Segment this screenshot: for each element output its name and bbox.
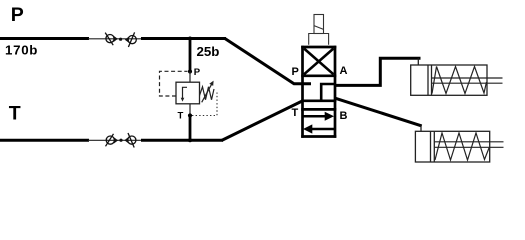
wire thin into valve box — [189, 72, 191, 83]
valve arrow left — [303, 124, 334, 133]
reducing valve internal arrow — [181, 87, 187, 101]
pressure reducing valve body — [176, 82, 200, 104]
quick coupling left half on T line — [106, 134, 119, 147]
wire B diagonal to bottom cylinder — [336, 98, 422, 126]
valve arrow right — [304, 112, 335, 121]
wire P diagonal to valve — [225, 38, 312, 83]
reducing valve adjustment arrow — [202, 81, 214, 103]
svg-text:P: P — [292, 66, 299, 78]
drain line dotted — [192, 93, 217, 116]
svg-text:P: P — [194, 67, 201, 78]
node dot between T couplings — [119, 139, 122, 142]
cylinder top body — [411, 65, 487, 95]
svg-text:170b: 170b — [5, 43, 38, 58]
wire P main — [0, 37, 89, 40]
svg-text:A: A — [340, 65, 348, 77]
svg-text:P: P — [11, 4, 24, 26]
svg-text:25b: 25b — [197, 44, 220, 59]
wire T main — [0, 139, 89, 142]
quick coupling right half on P line — [125, 32, 136, 47]
cylinder bottom spring — [435, 133, 489, 160]
wire branch vertical upper — [189, 39, 192, 72]
actuator bracket — [309, 34, 329, 45]
svg-text:B: B — [340, 110, 348, 122]
node dot between P couplings — [119, 38, 122, 41]
wire P coupling thin — [88, 38, 142, 40]
svg-text:T: T — [9, 103, 21, 125]
wire A to top cylinder — [335, 58, 421, 85]
wire T mid — [141, 139, 223, 142]
svg-text:T: T — [178, 111, 184, 122]
node P of reducing valve — [188, 69, 192, 73]
cylinder top rod — [432, 78, 503, 83]
wire T coupling thin — [88, 139, 142, 141]
valve X position crossed paths — [304, 49, 334, 75]
solenoid actuator — [314, 15, 324, 34]
reducing valve spring — [200, 87, 215, 100]
cylinder bottom body — [415, 131, 489, 162]
cylinder top spring — [432, 67, 487, 94]
valve internal A elbow — [321, 84, 335, 100]
wire branch vertical lower — [189, 116, 192, 142]
node T of reducing valve — [188, 113, 192, 117]
quick coupling right half on T line — [124, 133, 136, 148]
svg-text:T: T — [292, 107, 299, 119]
quick coupling left half on P line — [105, 33, 118, 46]
wire bottom cylinder port tick — [420, 126, 422, 132]
pilot line dashed — [160, 71, 188, 96]
wire P mid — [141, 37, 226, 40]
cylinder bottom rod — [434, 142, 503, 148]
node junction on P line at branch — [188, 37, 192, 41]
wire T diagonal to valve — [222, 101, 304, 141]
directional valve outline — [301, 46, 336, 138]
wire top cylinder port tick — [417, 58, 419, 65]
wire thin below valve box — [189, 104, 191, 116]
node junction on T line at branch — [188, 138, 192, 142]
